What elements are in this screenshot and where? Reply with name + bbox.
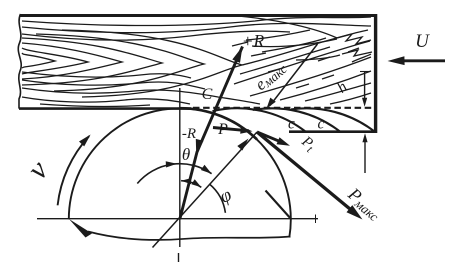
svg-text:θ: θ: [182, 145, 190, 164]
svg-text:+R: +R: [242, 31, 265, 51]
svg-text:-R: -R: [182, 126, 196, 142]
svg-text:P: P: [217, 121, 228, 138]
svg-text:c: c: [288, 116, 295, 133]
svg-text:U: U: [415, 31, 430, 52]
svg-text:C: C: [202, 86, 213, 103]
svg-text:c: c: [318, 116, 325, 133]
